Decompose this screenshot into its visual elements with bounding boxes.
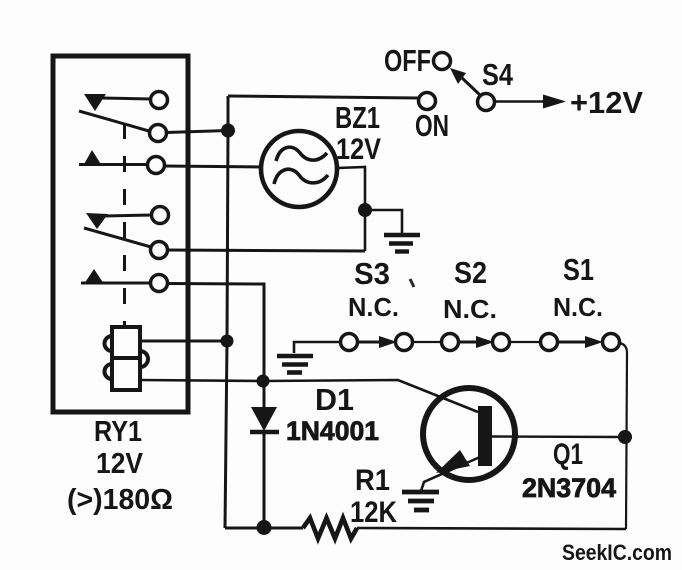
- node: junction dot at relay output: [221, 124, 235, 138]
- relay terminal circle 2: [150, 125, 167, 142]
- emitter with arrowhead: [421, 457, 480, 491]
- wire: [510, 341, 541, 343]
- wire: [79, 163, 148, 166]
- switch S4 ON contact: [419, 93, 436, 110]
- wire: [81, 282, 150, 285]
- svg-text:S4: S4: [482, 57, 514, 92]
- relay terminal circle 1: [151, 92, 168, 109]
- svg-text:SeekIC.com: SeekIC.com: [562, 540, 672, 565]
- relay actuation dashed line: [123, 123, 126, 326]
- relay arm (group2): [84, 228, 151, 247]
- S4 arm with arrowhead: [460, 76, 481, 96]
- svg-text:R1: R1: [355, 464, 390, 497]
- ground (near buzzer): [384, 235, 420, 252]
- wire to diode branch: [167, 284, 264, 408]
- noise tick: [410, 279, 414, 287]
- main left vertical wire: [225, 96, 228, 528]
- wire to +12V with arrowhead: [495, 100, 546, 103]
- top wire to S4 ON: [228, 96, 418, 98]
- wire: [166, 131, 228, 133]
- wire: [104, 215, 153, 216]
- wire S1 to right vertical: [619, 343, 627, 529]
- relay contact triangle (group2 NC): [86, 213, 108, 229]
- switch S2: [442, 334, 459, 351]
- switch S1: [541, 334, 558, 351]
- wire coil bottom to transistor base: [140, 380, 478, 412]
- relay terminal circle 4: [152, 207, 169, 224]
- svg-text:12V: 12V: [96, 448, 144, 480]
- wire buzzer right / down: [337, 167, 365, 251]
- svg-text:N.C.: N.C.: [348, 292, 399, 322]
- svg-text:1N4001: 1N4001: [286, 416, 379, 446]
- relay contact triangle (group1 NC): [84, 94, 106, 111]
- svg-text:S3: S3: [354, 256, 390, 291]
- switch S4 pivot: [478, 94, 495, 111]
- switch S3: [341, 334, 358, 351]
- relay terminal circle 6: [151, 275, 168, 292]
- node: bottom junction dot: [257, 520, 272, 535]
- wire coil top to vertical: [140, 340, 227, 343]
- node: dot above diode: [257, 375, 270, 388]
- wire to S3 ground branch: [167, 250, 365, 251]
- wire to buzzer: [164, 166, 262, 167]
- node: buzzer-ground junction: [358, 203, 372, 217]
- svg-text:ON: ON: [415, 108, 449, 143]
- diode D1: [251, 407, 277, 431]
- switch S4 OFF contact: [434, 53, 451, 70]
- relay RY1 box: [53, 56, 188, 412]
- wire: [102, 98, 151, 99]
- svg-text:N.C.: N.C.: [553, 292, 603, 322]
- relay coil: [105, 327, 148, 390]
- relay terminal circle 5: [151, 242, 168, 259]
- svg-text:+12V: +12V: [570, 85, 643, 120]
- ground (emitter): [402, 492, 439, 510]
- svg-text:D1: D1: [315, 382, 354, 417]
- svg-text:RY1: RY1: [94, 416, 142, 448]
- relay contact triangle (group1 NO): [83, 150, 102, 166]
- ground (S3 chain): [294, 342, 341, 353]
- relay terminal circle 3: [148, 157, 165, 174]
- svg-text:(>)180Ω: (>)180Ω: [67, 484, 173, 516]
- svg-text:12V: 12V: [336, 133, 381, 166]
- transistor Q1: [423, 388, 515, 480]
- wire to ground: [365, 210, 402, 234]
- svg-text:OFF: OFF: [384, 43, 431, 78]
- svg-text:S1: S1: [563, 252, 594, 287]
- node: junction dot at coil top: [221, 335, 234, 348]
- node: collector junction dot: [618, 430, 632, 444]
- svg-text:2N3704: 2N3704: [522, 473, 616, 503]
- wire: [413, 341, 442, 343]
- bottom wire with resistor R1: [225, 527, 303, 530]
- svg-text:S2: S2: [454, 255, 487, 290]
- relay arm (group1): [79, 111, 149, 131]
- svg-text:BZ1: BZ1: [335, 100, 380, 135]
- relay contact triangle (group2 NO): [84, 269, 104, 284]
- buzzer BZ1: [261, 131, 337, 207]
- svg-text:12K: 12K: [350, 496, 397, 529]
- collector wire: [492, 435, 621, 438]
- svg-text:Q1: Q1: [553, 438, 583, 471]
- svg-text:N.C.: N.C.: [443, 294, 497, 324]
